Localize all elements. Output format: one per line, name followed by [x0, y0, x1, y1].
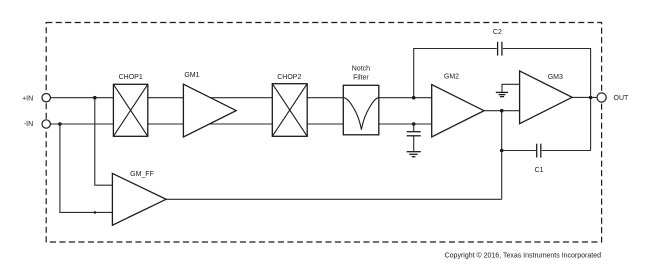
ground at GM3 input [496, 92, 508, 96]
svg-text:OUT: OUT [614, 95, 630, 102]
amplifier GM_FF [112, 173, 166, 225]
svg-text:-IN: -IN [24, 121, 33, 128]
svg-text:Notch: Notch [352, 65, 370, 72]
dashed boundary box [46, 23, 601, 243]
node junction output crossing [589, 96, 593, 100]
svg-text:Copyright © 2016, Texas Instru: Copyright © 2016, Texas Instruments Inco… [445, 251, 601, 259]
capacitor to ground at GM2 input [407, 124, 421, 152]
svg-text:C1: C1 [535, 167, 544, 174]
terminal -IN [42, 120, 50, 128]
amplifier GM2 [432, 85, 484, 137]
wire C1 bottom from node to right vertical [502, 150, 591, 152]
wire GM_FF upper input from +IN rail [95, 98, 113, 186]
wire GM_FF output [166, 198, 502, 200]
capacitor C2 [497, 42, 503, 56]
node junction feedback tap on upper rail [412, 96, 416, 100]
wire -IN to CHOP1 lower rail (runs behind GM1 to GM2) [50, 123, 432, 125]
node junction on +IN rail [93, 96, 97, 100]
wire GM_FF lower input from -IN rail [60, 124, 113, 212]
node junction C1 left [500, 149, 504, 153]
svg-text:C2: C2 [493, 29, 502, 36]
svg-text:CHOP2: CHOP2 [277, 74, 301, 81]
amplifier GM3 [520, 71, 573, 124]
chopper CHOP1 [113, 84, 147, 136]
node junction capacitor tap on lower rail [412, 122, 416, 126]
svg-text:+IN: +IN [22, 96, 33, 103]
wire GM3 output to OUT [572, 96, 598, 98]
node junction GM2 output [500, 109, 504, 113]
terminal +IN [42, 94, 50, 102]
amplifier GM1 [183, 84, 236, 137]
svg-text:GM2: GM2 [444, 73, 459, 80]
svg-text:GM_FF: GM_FF [130, 171, 154, 178]
wire GM3 upper input to ground [502, 84, 520, 92]
svg-text:Filter: Filter [353, 74, 369, 81]
terminal OUT [597, 93, 606, 102]
svg-text:GM1: GM1 [184, 72, 199, 79]
wire C2 feedback loop top [414, 49, 591, 151]
svg-text:CHOP1: CHOP1 [119, 74, 143, 81]
capacitor C1 [536, 144, 542, 158]
wire GM2 output to GM3 input [432, 110, 520, 112]
ground below capacitor [407, 152, 421, 157]
Notch Filter block [343, 85, 379, 135]
svg-text:GM3: GM3 [548, 74, 563, 81]
node junction GM_FF lower input wire [94, 211, 97, 214]
node junction on -IN rail [58, 122, 62, 126]
chopper CHOP2 [272, 84, 307, 137]
wire vertical GM2 output node down to GM_FF output [501, 111, 503, 200]
wire +IN to CHOP1 upper rail (runs behind GM1 to GM2) [50, 97, 432, 99]
